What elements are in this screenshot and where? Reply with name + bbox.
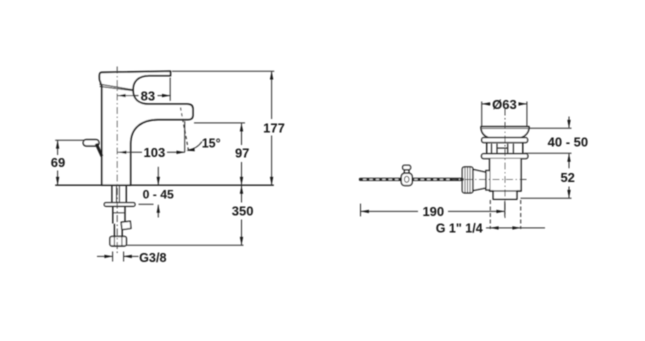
deck line [55, 184, 274, 186]
drain knurled nut [462, 167, 473, 193]
faucet lever/body joint wedge lines [100, 84, 133, 90]
drain cone adapter [473, 169, 486, 190]
dimension 177 [172, 70, 274, 72]
dimension diameter 63 [482, 102, 527, 127]
svg-text:40 - 50: 40 - 50 [548, 134, 588, 149]
dimension 350 [241, 185, 243, 245]
svg-text:103: 103 [144, 145, 166, 160]
dimension 52 [568, 154, 570, 169]
svg-text:G 1" 1/4: G 1" 1/4 [436, 222, 483, 236]
svg-text:190: 190 [422, 204, 444, 219]
rod clamp screw [403, 165, 411, 169]
dimension 0-45 [157, 167, 159, 185]
dimension G 1" 1/4 [490, 200, 520, 229]
hose elbow [121, 221, 131, 229]
shank inner stud lines [116, 185, 118, 202]
faucet centerline [116, 67, 118, 254]
svg-text:69: 69 [51, 155, 65, 170]
faucet handle knob [83, 140, 99, 146]
dimension 97 [194, 122, 245, 124]
svg-text:Ø63: Ø63 [492, 97, 517, 112]
svg-text:0 - 45: 0 - 45 [143, 188, 174, 202]
drain body [490, 159, 521, 200]
drain ring C [482, 154, 528, 159]
15 degree annotation [184, 121, 186, 152]
hose end nut G3/8 [110, 236, 127, 246]
svg-text:G3/8: G3/8 [139, 251, 166, 265]
svg-text:15°: 15° [202, 137, 221, 151]
supply tube upper [112, 206, 114, 223]
drain horizontal centerline [452, 178, 527, 180]
drain vertical centerline [504, 109, 506, 219]
dimension 40-50 [530, 127, 572, 129]
drain socket (left branch) [486, 171, 490, 190]
washer/flange [104, 203, 135, 207]
svg-text:97: 97 [235, 145, 249, 160]
dimension G3/8 [97, 252, 139, 262]
hose lower tube [113, 224, 115, 237]
dimension 190 [360, 204, 362, 217]
drain slotted neck [487, 143, 523, 154]
svg-text:177: 177 [263, 121, 285, 136]
drain funnel flange [481, 127, 529, 138]
dimension 83 [118, 78, 171, 101]
svg-text:83: 83 [141, 89, 155, 104]
svg-text:350: 350 [232, 204, 254, 219]
drain ring A [482, 138, 528, 143]
faucet body outline [99, 71, 192, 185]
shank below deck [111, 185, 113, 202]
pull rod [361, 178, 463, 181]
svg-text:52: 52 [560, 170, 574, 185]
dimension 69 [55, 139, 84, 141]
dimension 103 [118, 151, 185, 153]
